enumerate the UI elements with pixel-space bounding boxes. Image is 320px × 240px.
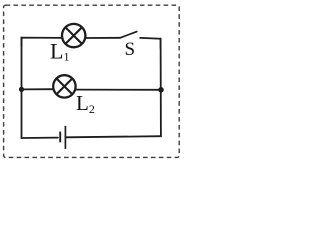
node junction dot left xyxy=(19,87,24,92)
wire: switch right contact to top-right corner xyxy=(140,38,160,48)
wire middle branch: left node to lamp L2 xyxy=(22,88,54,90)
wire middle branch: lamp L2 to right node xyxy=(76,89,161,91)
wire left vertical xyxy=(21,38,23,138)
svg-text:S: S xyxy=(125,39,136,60)
wire bottom: battery to left corner xyxy=(22,137,58,139)
node junction dot right xyxy=(158,87,164,93)
svg-text:L2: L2 xyxy=(76,91,95,116)
wire top-left: corner to lamp L1 xyxy=(22,38,63,46)
wire: lamp L1 to switch contact xyxy=(86,37,121,39)
switch S blade xyxy=(120,32,137,38)
lamp L2 xyxy=(53,75,75,97)
battery cell xyxy=(60,126,65,149)
wire bottom: right corner to battery xyxy=(66,136,161,137)
dashed frame border xyxy=(4,5,180,157)
lamp L1 xyxy=(62,24,85,47)
wire right vertical xyxy=(160,39,162,137)
